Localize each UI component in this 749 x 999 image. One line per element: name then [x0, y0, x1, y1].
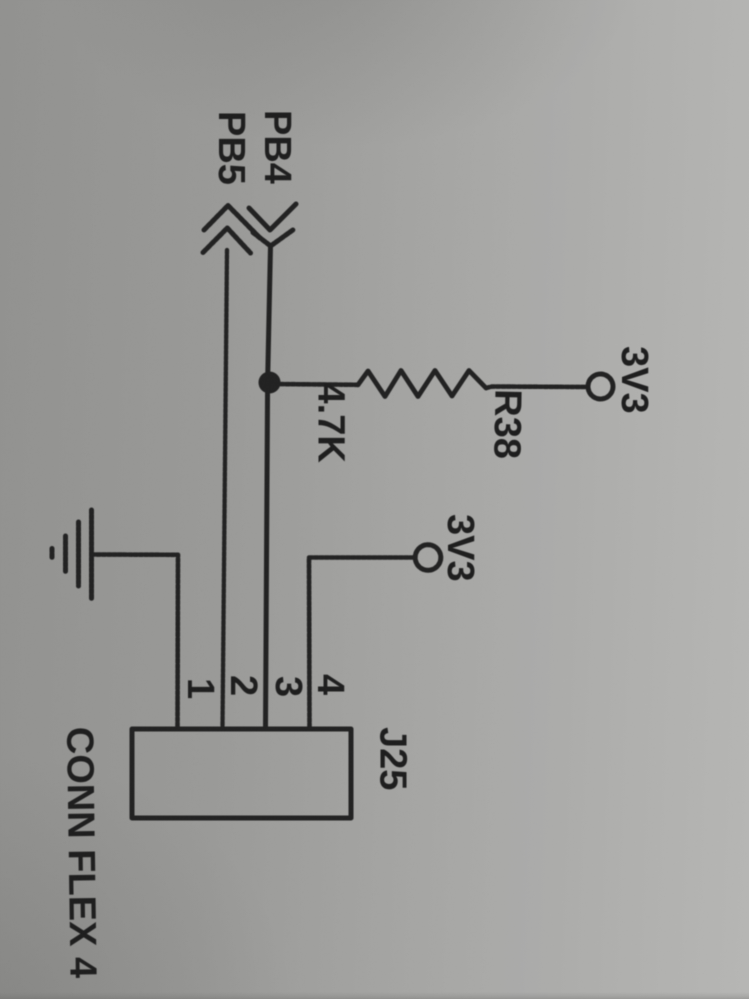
resistor R38 zigzag body [358, 371, 486, 397]
off-page connector chevron PB4 (points down) [249, 204, 296, 246]
ground symbol [52, 510, 92, 599]
paper grain [0, 0, 1, 1]
power terminal circle 3V3 (at R38) [588, 374, 613, 399]
off-page connector chevron PB5 (points up) [203, 206, 260, 254]
wire net PB4 from chevron to junction [268, 246, 271, 382]
power terminal circle 3V3 (at pin 4) [415, 545, 441, 571]
wire 3V3 to pin 4 [309, 558, 415, 728]
wire net PB4 from junction to pin 3 [266, 382, 268, 727]
junction dot (PB4 / R38) [259, 372, 281, 394]
connector J25 body [132, 729, 351, 818]
wire net PB5 from chevron to pin 2 [223, 250, 228, 727]
wire ground to pin 1 [92, 555, 179, 728]
resistor R38 leads [270, 384, 588, 388]
